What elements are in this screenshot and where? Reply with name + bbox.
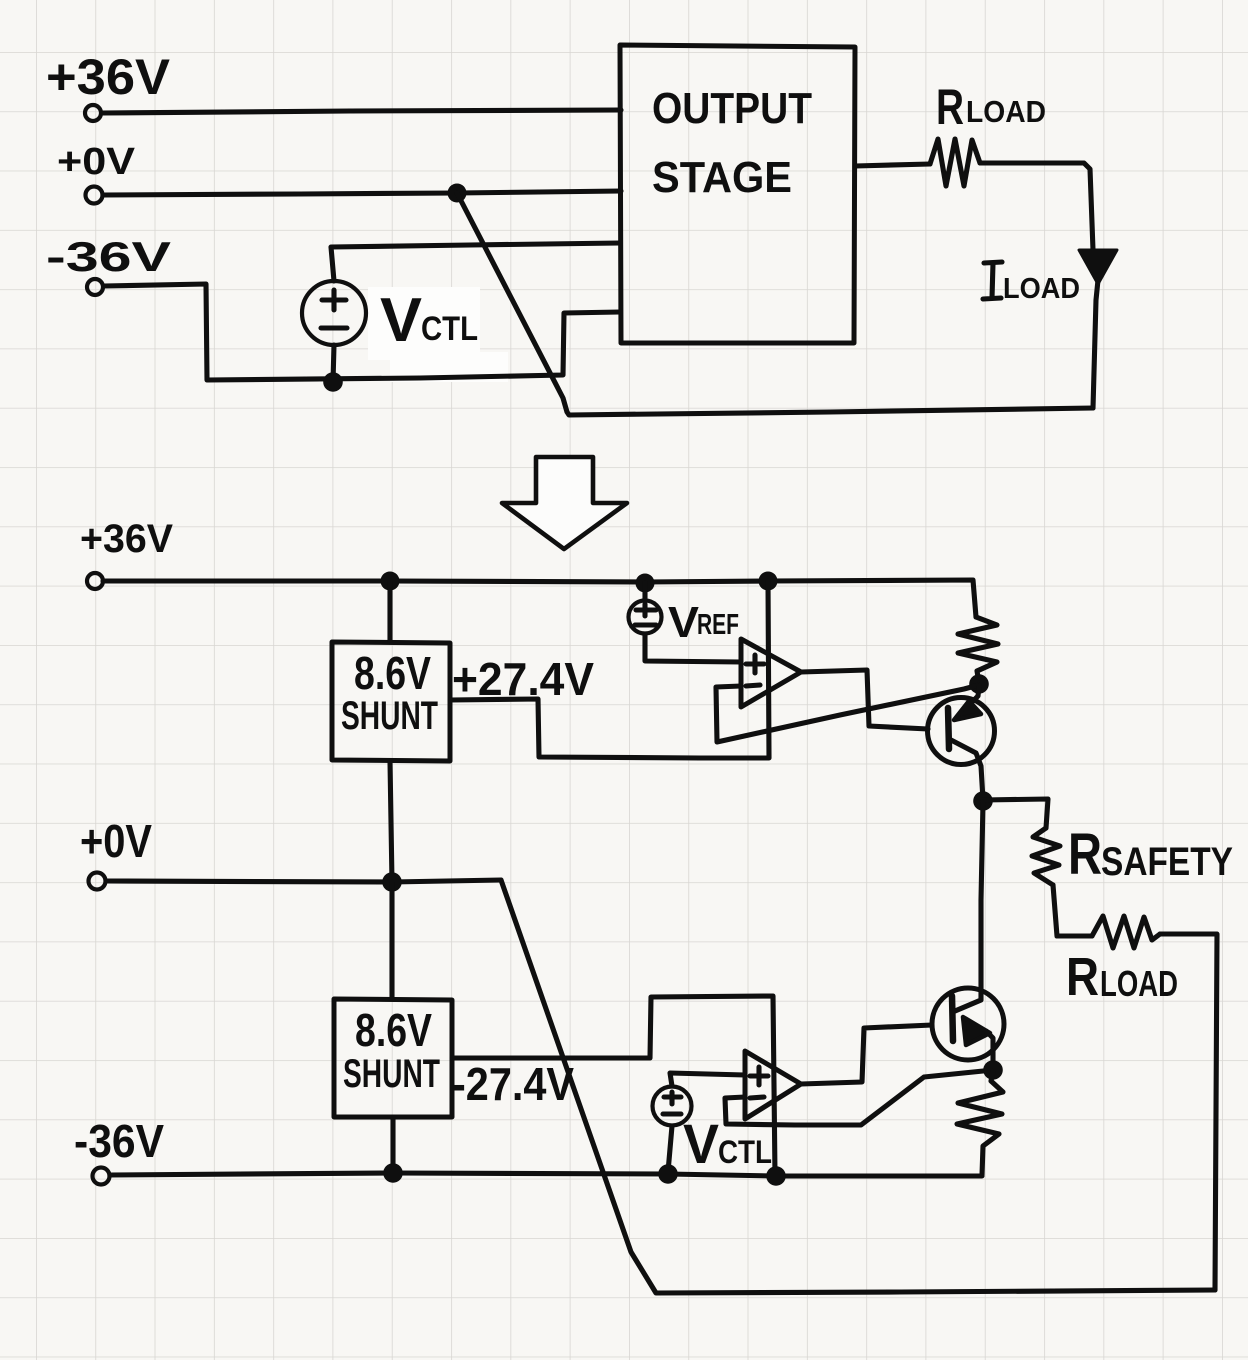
svg-text:LOAD: LOAD [1003,273,1080,305]
block 8.6V SHUNT #2 [334,999,452,1117]
big hollow arrow (implementation marker) [502,457,627,549]
wire opamp1 inverting input loop [716,685,979,742]
label Vctl (top) [380,286,478,355]
svg-text:LOAD: LOAD [1100,963,1178,1004]
wire output stage to Rload [855,164,930,166]
node junction Q2 emitter / R2 / feedback [983,1060,1003,1080]
wire shunt2 to -36V [390,1117,395,1173]
wire junction to Q2 collector [981,802,983,988]
label Rload (top) [936,79,1046,135]
wire -36V rail (bottom) [110,1173,982,1176]
wire -36V to output stage [104,284,620,380]
svg-text:SHUNT: SHUNT [341,694,438,738]
svg-text:+36V: +36V [80,517,173,561]
node junction +0V shunts [382,872,402,892]
label Vref [668,598,739,647]
svg-text:+0V: +0V [80,815,152,867]
node junction -36V shunt2 output [766,1166,786,1186]
wire shunt1 to +0V [390,761,392,882]
terminal +0V (bottom) [89,873,106,890]
wire diagonal +0V junction to bottom loop [457,193,1093,415]
op-amp U2 (upper) [741,639,801,707]
resistor R2 (emitter resistor Q2) [957,1071,1003,1175]
svg-text:REF: REF [697,609,739,641]
svg-text:V: V [380,286,422,355]
wire Vctl plus terminal to output stage [331,243,620,281]
wire +36V to shunt1 [387,581,392,642]
voltage source Vref [629,601,662,634]
terminal -36V (bottom) [93,1168,110,1185]
wire opamp1 output to Q1 base [801,670,928,729]
svg-text:SHUNT: SHUNT [343,1052,440,1096]
wire shunt2 output to -36V junction [452,996,775,1175]
resistor Rload (top) [930,139,980,186]
resistor Rsafety [1032,828,1060,885]
wire +36V rail (bottom) [103,580,976,617]
svg-text:8.6V: 8.6V [354,647,431,699]
block OUTPUT STAGE U1 [620,45,855,343]
svg-text:R: R [936,79,964,135]
wire +36V rail (top) [102,110,621,113]
wire Rsafety to Rload (bottom) [1053,885,1092,936]
node junction +36V shunt1 [381,572,400,591]
wire Rload to Iload branch [980,163,1093,250]
svg-text:OUTPUT: OUTPUT [652,84,812,133]
op-amp U3 (lower) [745,1051,801,1119]
svg-text:V: V [668,598,700,647]
label Iload [983,262,1080,305]
wire +0V rail (bottom) [106,880,501,882]
label Rload (bottom) [1066,947,1178,1007]
svg-text:-27.4V: -27.4V [452,1058,574,1110]
wire Vctl minus terminal to -36V [333,345,334,382]
wire Vctl to opamp2 plus input [670,1073,745,1086]
node junction R1/Q1 emitter/feedback [969,674,989,694]
node junction Q1 collector / Rsafety / Q2 collector [973,791,993,811]
svg-text:-36V: -36V [74,1115,164,1167]
svg-text:8.6V: 8.6V [355,1004,432,1056]
wire +0V to shunt2 [389,882,394,999]
transistor Q1 (PNP) [928,686,995,800]
terminal -36V (top) [87,279,103,295]
node junction +36V opamp loop [759,572,778,591]
svg-text:CTL: CTL [421,310,478,348]
wire junction to Rsafety [983,799,1048,828]
svg-text:SAFETY: SAFETY [1101,840,1233,884]
label Vctl (bottom) [683,1112,772,1175]
current arrow Iload [1079,250,1117,408]
svg-text:STAGE: STAGE [652,153,792,202]
wire shunt1 output to +36V junction [450,581,769,758]
wire +0V rail (top) [103,191,621,195]
wire Vref to opamp1 plus input [645,634,741,662]
resistor R1 (emitter resistor Q1) [958,617,998,683]
label Rsafety [1068,822,1233,887]
node junction +0V to load return [448,184,467,203]
wire opamp2 inverting input loop [725,1070,993,1125]
svg-text:+0V: +0V [57,141,136,183]
svg-text:R: R [1068,822,1102,887]
transistor Q2 (NPN) [932,988,1004,1069]
node junction +36V Vref [636,574,655,593]
white patch behind Vctl label [368,287,480,360]
wire Vref junction stub [642,583,647,601]
voltage source Vctl (top) [302,281,366,345]
wire bottom loop to +0V diagonal [501,880,1215,1293]
svg-text:V: V [683,1112,719,1175]
svg-text:R: R [1066,947,1099,1007]
terminal +36V (bottom) [87,573,103,589]
svg-text:CTL: CTL [718,1134,772,1170]
wire Rload to bottom loop [1160,934,1217,1290]
svg-text:+36V: +36V [46,49,171,105]
node junction -36V shunt2 [383,1163,403,1183]
terminal +36V (top) [85,105,101,121]
block 8.6V SHUNT #1 [332,642,450,761]
wire opamp2 output to Q2 base [801,1025,932,1084]
voltage source Vctl (bottom) [653,1087,692,1126]
node junction Vctl minus on -36V wire [323,372,343,392]
node junction -36V Vctl [658,1164,678,1184]
resistor Rload (bottom) [1092,916,1160,948]
wire Vctl minus to -36V rail [668,1126,672,1172]
svg-text:-36V: -36V [46,233,171,280]
svg-text:LOAD: LOAD [966,94,1046,129]
terminal +0V (top) [86,187,103,204]
